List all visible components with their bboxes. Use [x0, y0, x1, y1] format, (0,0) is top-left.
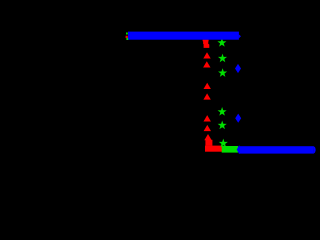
top blue arrow right tip	[239, 34, 241, 38]
green arrow tip peek (bottom-left of blue arrow)	[126, 38, 128, 40]
blue thin-diamond marker 1	[235, 64, 241, 73]
red triangle marker 6	[204, 83, 211, 89]
bottom blue arrow bar	[239, 146, 314, 153]
top blue arrow bar	[128, 32, 239, 40]
red bend blob (overlapping triangles)	[205, 140, 212, 146]
green star marker 1 (clipped by blue bar)	[217, 38, 226, 47]
red bottom bar	[205, 146, 223, 152]
blue thin-diamond marker 2	[235, 114, 241, 123]
green star marker 4	[218, 107, 227, 116]
red triangle marker 4	[203, 52, 210, 58]
red arrow tip peek (left of blue arrow)	[126, 36, 128, 38]
green star marker 3	[218, 68, 227, 77]
bottom blue arrow right tip	[314, 146, 316, 153]
green star marker 6 (bend)	[219, 139, 228, 148]
green star marker 2	[218, 54, 227, 63]
bottom blue arrow left head	[237, 145, 240, 155]
red triangle marker 9	[204, 125, 211, 131]
red triangle marker 10 (bend)	[204, 134, 211, 140]
green arrow tip peek (top-left of blue arrow)	[126, 33, 128, 35]
red triangle marker 5	[203, 61, 210, 67]
red triangle marker 8	[204, 115, 211, 121]
red triangle marker 7	[203, 93, 210, 99]
green star marker 5	[218, 121, 227, 130]
red marker cluster under blue arrow (two overlapping triangles)	[203, 40, 210, 48]
green bottom bar	[222, 146, 238, 153]
